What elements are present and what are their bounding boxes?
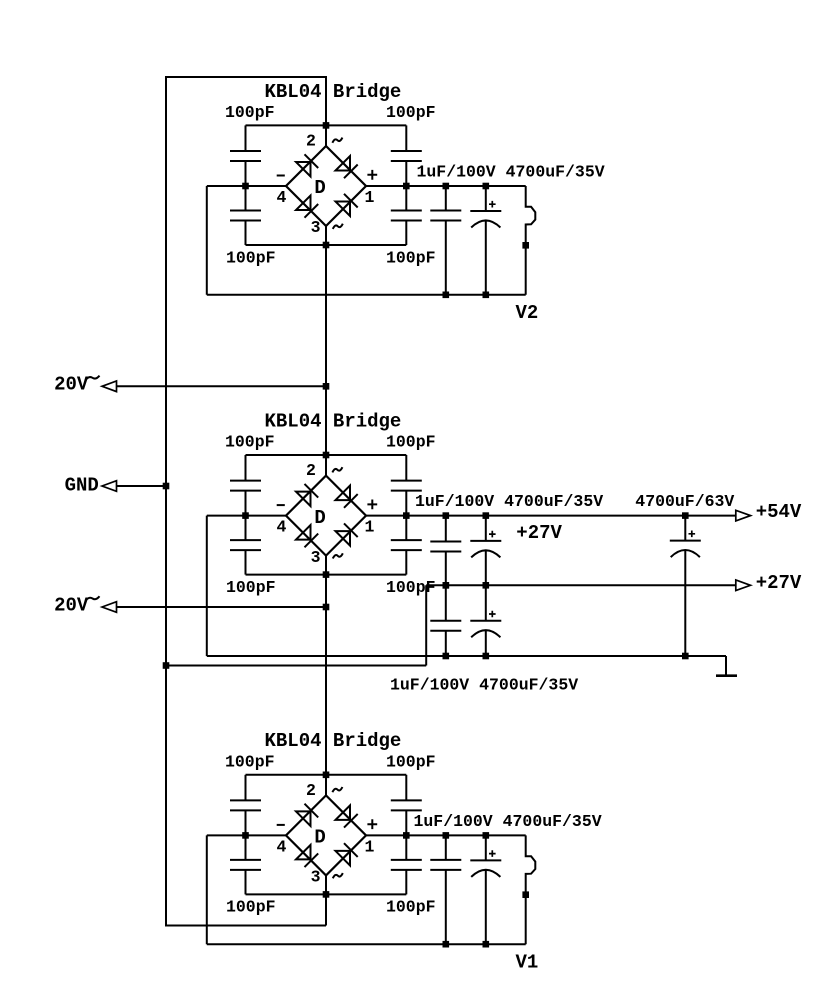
junction: 20V~ lower on AC bus: [323, 604, 330, 611]
svg-text:KBL04 Bridge: KBL04 Bridge: [265, 410, 402, 432]
svg-text:2: 2: [306, 781, 316, 800]
bridge rectifier D KBL04 (mid): [277, 461, 378, 567]
wire: V2 plus rail: [366, 185, 526, 187]
wire: minus mid wire (V2): [207, 185, 286, 187]
wire: V1 bottom rail: [207, 943, 526, 945]
svg-text:1uF/100V 4700uF/35V: 1uF/100V 4700uF/35V: [415, 492, 603, 511]
capacitor 100pF top-right (mid): [391, 455, 422, 516]
bridge rectifier D KBL04 (V1): [277, 781, 378, 887]
svg-text:4700uF/63V: 4700uF/63V: [635, 492, 734, 511]
junction: AC bus / top cap bus (V2): [323, 122, 330, 129]
svg-text:+54V: +54V: [756, 501, 802, 523]
capacitor 100pF top-left (V1): [230, 775, 261, 836]
svg-text:100pF: 100pF: [386, 103, 436, 122]
svg-text:100pF: 100pF: [386, 898, 436, 917]
wire: center AC bus segment 4: [325, 875, 327, 925]
junction: right caps mid (mid): [403, 512, 410, 519]
junction: V2 connector pin: [522, 242, 529, 249]
junction: 4700uF/63V top: [682, 512, 689, 519]
junction: 4700uF/63V bottom: [682, 653, 689, 660]
wire: bottom cap bus (mid): [246, 574, 407, 576]
junction: 4700uF bottom (mid lower): [483, 653, 490, 660]
wire: bottom cap bus (V2): [246, 244, 407, 246]
junction: AC bus / bottom cap bus (mid): [323, 571, 330, 578]
port 20V~ (upper) arrow: [102, 381, 117, 392]
svg-text:20V: 20V: [54, 595, 89, 617]
wire: left bus (20V~ center tap) vertical: [165, 76, 167, 927]
svg-text:D: D: [314, 507, 325, 529]
junction: 1uF top (mid): [443, 512, 450, 519]
wire: ground rail: [207, 655, 726, 657]
svg-text:3: 3: [311, 218, 321, 237]
wire: V2 left drop: [206, 186, 208, 295]
wire: top cap bus (mid): [246, 454, 407, 456]
connector V2 output: [526, 186, 536, 295]
wire: GND to left bus: [116, 485, 166, 487]
capacitor 1uF/100V (mid upper): [430, 516, 461, 586]
svg-text:1: 1: [364, 837, 374, 856]
svg-text:KBL04 Bridge: KBL04 Bridge: [265, 730, 402, 752]
capacitor 4700uF/35V (mid lower): [470, 585, 501, 656]
wire: V1 left drop: [206, 835, 208, 944]
svg-text:4: 4: [277, 837, 287, 856]
junction: 1uF bottom (mid upper): [443, 582, 450, 589]
capacitor 100pF bottom-left (mid): [230, 516, 261, 575]
junction: 20V~ upper on AC bus: [323, 383, 330, 390]
svg-text:D: D: [314, 177, 325, 199]
junction: 4700uF top (mid): [483, 512, 490, 519]
svg-text:100pF: 100pF: [386, 433, 436, 452]
capacitor 100pF top-right (V2): [391, 125, 422, 186]
wire: center-tap link to +27V drop: [166, 665, 426, 667]
junction: 4700uF bottom (mid upper): [483, 582, 490, 589]
junction: GND on left bus: [163, 483, 170, 490]
wire: V2 bottom rail: [207, 294, 526, 296]
wire: +27V drop: [425, 585, 427, 665]
svg-text:100pF: 100pF: [226, 248, 276, 267]
svg-text:1uF/100V 4700uF/35V: 1uF/100V 4700uF/35V: [414, 812, 602, 831]
svg-text:V2: V2: [516, 302, 539, 324]
port +54V arrow: [736, 510, 751, 521]
junction: 1uF bottom (V1): [443, 941, 450, 948]
junction: 1uF top (mid lower): [443, 582, 450, 589]
junction: center-tap link on left bus: [163, 662, 170, 669]
bridge rectifier D KBL04 (V2): [277, 131, 378, 237]
wire: V1 plus rail: [366, 834, 526, 836]
capacitor 1uF/100V (V1): [430, 835, 461, 944]
wire: minus mid wire (mid): [207, 515, 286, 517]
capacitor 100pF bottom-left (V2): [230, 186, 261, 245]
junction: 4700uF top (V1): [483, 832, 490, 839]
capacitor 4700uF/63V: [670, 516, 701, 656]
svg-text:1uF/100V 4700uF/35V: 1uF/100V 4700uF/35V: [390, 676, 578, 695]
svg-text:D: D: [314, 827, 325, 849]
svg-text:GND: GND: [65, 475, 99, 497]
svg-text:100pF: 100pF: [386, 578, 436, 597]
svg-text:1: 1: [364, 188, 374, 207]
junction: left caps mid (V2): [242, 183, 249, 190]
wire: bottom cap bus (V1): [246, 893, 407, 895]
svg-text:100pF: 100pF: [226, 898, 276, 917]
svg-text:4: 4: [277, 188, 287, 207]
port 20V~ (lower) arrow: [102, 602, 117, 613]
capacitor 1uF/100V (mid lower): [430, 585, 461, 656]
junction: AC bus / bottom cap bus (V2): [323, 242, 330, 249]
capacitor 100pF bottom-right (V2): [391, 186, 422, 245]
wire: center AC bus segment 2: [325, 226, 327, 476]
junction: 4700uF bottom (V1): [483, 941, 490, 948]
capacitor 100pF bottom-left (V1): [230, 835, 261, 894]
junction: 1uF bottom (mid lower): [443, 653, 450, 660]
wire: minus mid wire (V1): [207, 834, 286, 836]
junction: AC bus / bottom cap bus (V1): [323, 891, 330, 898]
junction: left caps mid (mid): [242, 512, 249, 519]
capacitor 100pF top-left (V2): [230, 125, 261, 186]
svg-text:+27V: +27V: [756, 572, 802, 594]
svg-text:KBL04 Bridge: KBL04 Bridge: [265, 81, 402, 103]
junction: left caps mid (V1): [242, 832, 249, 839]
svg-text:V1: V1: [516, 952, 539, 974]
svg-text:100pF: 100pF: [386, 248, 436, 267]
wire: top cap bus (V2): [246, 124, 407, 126]
svg-text:100pF: 100pF: [225, 103, 275, 122]
wire: +54V rail: [366, 515, 736, 517]
wire: mid left drop (bridge minus to ground rail): [206, 516, 208, 656]
junction: 1uF top (V1): [443, 832, 450, 839]
svg-text:100pF: 100pF: [386, 753, 436, 772]
junction: 1uF top (V2): [443, 183, 450, 190]
junction: AC bus / top cap bus (mid): [323, 452, 330, 459]
wire: 20V~ upper to AC bus: [116, 385, 326, 387]
junction: AC bus / top cap bus (V1): [323, 772, 330, 779]
wire: +27V rail: [426, 584, 736, 586]
svg-text:2: 2: [306, 131, 316, 150]
wire: top cap bus (V1): [246, 774, 407, 776]
capacitor 4700uF/35V (V1): [470, 835, 501, 944]
capacitor 100pF bottom-right (mid): [391, 516, 422, 575]
svg-text:2: 2: [306, 461, 316, 480]
wire: center AC bus segment 3: [325, 556, 327, 796]
svg-text:1: 1: [364, 518, 374, 537]
junction: 1uF bottom (V2): [443, 292, 450, 299]
wire: 20V~ lower to AC bus: [116, 606, 326, 608]
junction: right caps mid (V1): [403, 832, 410, 839]
ground symbol: [716, 656, 737, 676]
port GND arrow: [102, 481, 117, 492]
svg-text:100pF: 100pF: [225, 753, 275, 772]
port +27V arrow: [736, 580, 751, 591]
junction: 4700uF bottom (V2): [483, 292, 490, 299]
svg-text:100pF: 100pF: [225, 433, 275, 452]
wire: center AC bus segment 1: [325, 76, 327, 146]
junction: V1 connector pin: [522, 891, 529, 898]
capacitor 4700uF/35V (V2): [470, 186, 501, 295]
capacitor 1uF/100V (V2): [430, 186, 461, 295]
wire: left bus bottom corner to AC bus: [166, 925, 326, 927]
svg-text:3: 3: [311, 548, 321, 567]
capacitor 100pF top-right (V1): [391, 775, 422, 836]
junction: 4700uF top (V2): [483, 183, 490, 190]
svg-text:100pF: 100pF: [226, 578, 276, 597]
capacitor 4700uF/35V (mid upper): [470, 516, 501, 586]
capacitor 100pF top-left (mid): [230, 455, 261, 516]
wire: top feed from left bus to AC bus: [166, 76, 326, 78]
svg-text:1uF/100V 4700uF/35V: 1uF/100V 4700uF/35V: [417, 163, 605, 182]
connector V1 output: [526, 835, 536, 944]
svg-text:20V: 20V: [54, 374, 89, 396]
svg-text:4: 4: [277, 518, 287, 537]
svg-text:3: 3: [311, 868, 321, 887]
svg-text:+27V: +27V: [516, 522, 562, 544]
junction: right caps mid (V2): [403, 183, 410, 190]
capacitor 100pF bottom-right (V1): [391, 835, 422, 894]
